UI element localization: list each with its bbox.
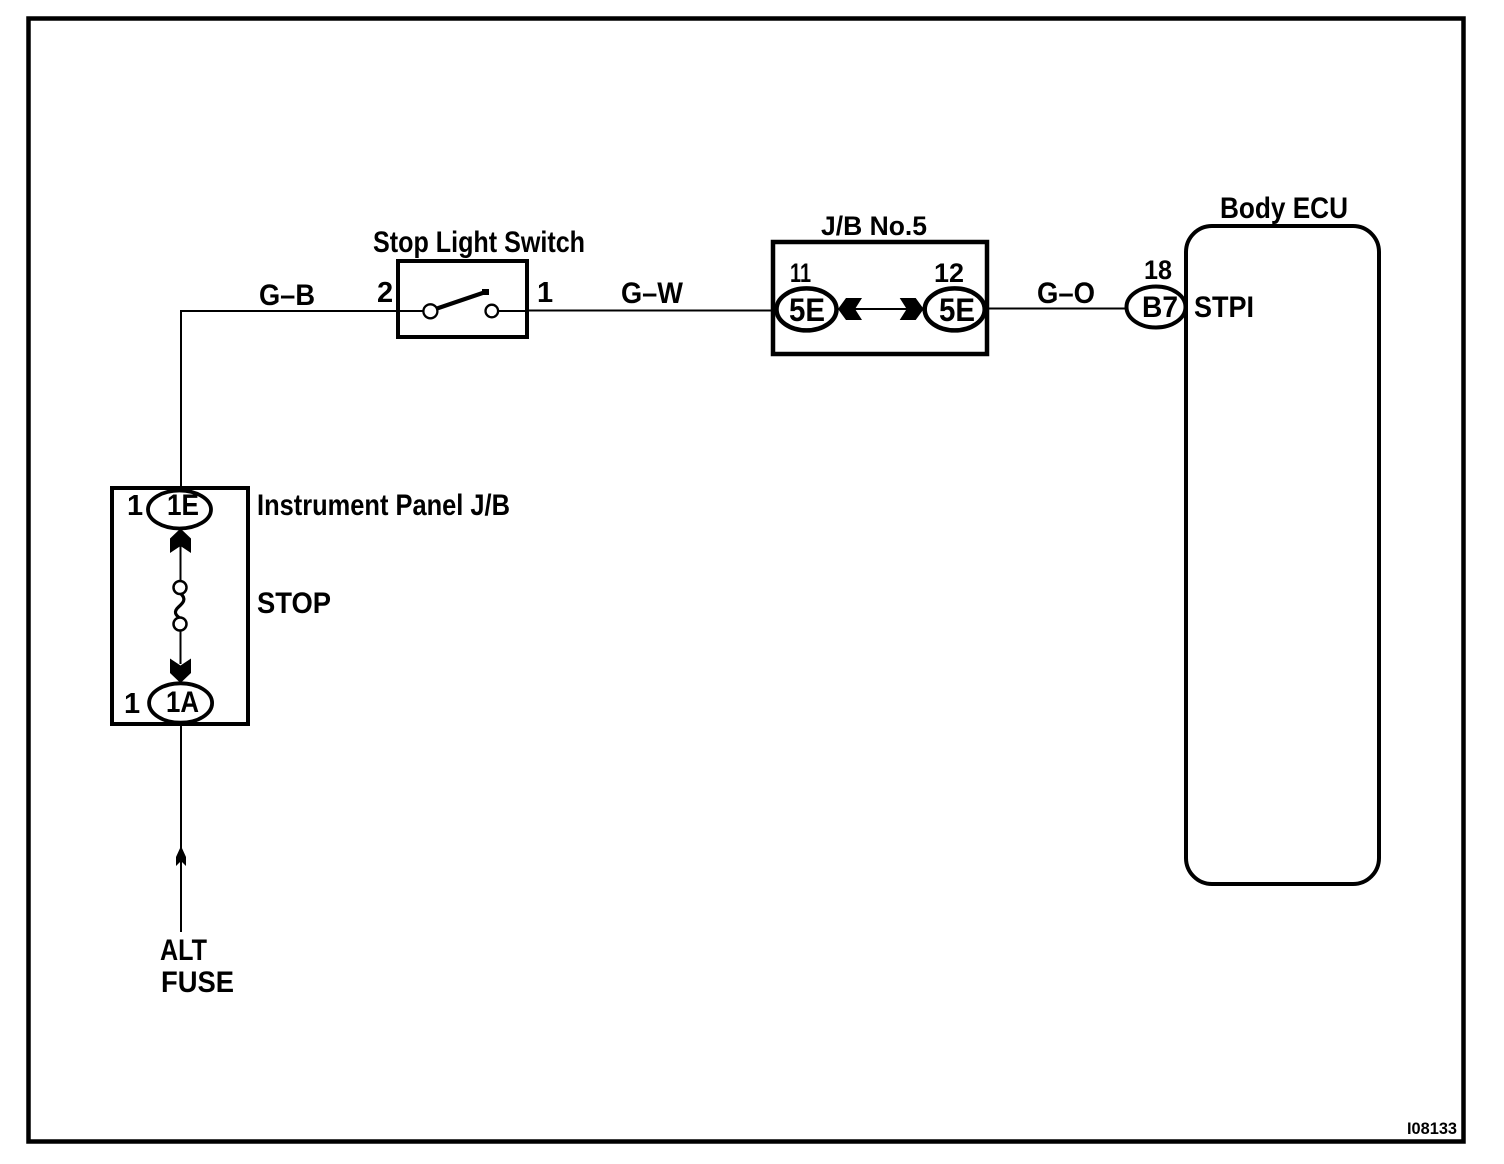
svg-text:1: 1 xyxy=(124,688,140,720)
svg-text:2: 2 xyxy=(377,277,393,309)
svg-text:G–O: G–O xyxy=(1037,277,1095,310)
arrowhead right xyxy=(900,298,924,320)
svg-text:Stop Light Switch: Stop Light Switch xyxy=(373,226,585,259)
svg-text:G–B: G–B xyxy=(259,279,315,312)
svg-text:18: 18 xyxy=(1144,255,1172,285)
svg-text:B7: B7 xyxy=(1142,291,1178,324)
svg-text:12: 12 xyxy=(934,258,964,288)
arrowhead left xyxy=(838,298,862,320)
svg-text:1A: 1A xyxy=(166,686,199,719)
wire between connectors xyxy=(835,308,926,310)
junction block J/B No.5 body xyxy=(773,242,987,354)
wire G-B vertical xyxy=(180,311,182,492)
internal wire xyxy=(180,546,182,581)
wire to ALT fuse xyxy=(180,726,182,932)
switch S1 terminal left xyxy=(423,304,437,318)
svg-text:I08133: I08133 xyxy=(1407,1119,1457,1138)
svg-text:1: 1 xyxy=(537,277,553,309)
switch S1 body xyxy=(398,261,527,337)
svg-text:Instrument Panel J/B: Instrument Panel J/B xyxy=(257,489,510,522)
switch S1 lever xyxy=(437,292,487,309)
svg-text:11: 11 xyxy=(790,258,811,288)
splice circle top xyxy=(174,581,187,594)
connector 1A xyxy=(149,683,212,722)
wire xyxy=(398,310,424,312)
svg-text:STPI: STPI xyxy=(1194,291,1254,324)
wire G-W xyxy=(527,310,775,312)
svg-text:Body ECU: Body ECU xyxy=(1220,192,1348,225)
svg-text:1E: 1E xyxy=(167,489,199,522)
switch S1 lever tip xyxy=(482,289,489,295)
svg-text:1: 1 xyxy=(127,490,143,522)
switch S1 terminal right xyxy=(486,305,499,318)
svg-text:FUSE: FUSE xyxy=(161,966,234,999)
fuse label ALT FUSE xyxy=(160,934,234,999)
arrowhead up xyxy=(170,529,191,554)
arrowhead up small xyxy=(176,846,186,866)
ECU U1 body xyxy=(1186,226,1379,884)
wire G-B horizontal xyxy=(180,310,399,312)
svg-text:5E: 5E xyxy=(939,292,975,328)
connector 5E pin 12 xyxy=(925,288,985,330)
splice circle bottom xyxy=(174,618,187,631)
svg-text:J/B No.5: J/B No.5 xyxy=(821,211,927,241)
wire xyxy=(498,310,527,312)
connector B7 xyxy=(1127,287,1186,328)
junction block Instrument Panel J/B body xyxy=(112,488,248,724)
internal wire xyxy=(180,630,182,664)
arrowhead down xyxy=(170,659,191,684)
svg-text:STOP: STOP xyxy=(257,587,331,620)
connector 1E xyxy=(148,489,211,529)
wire G-O xyxy=(984,308,1128,310)
svg-text:G–W: G–W xyxy=(621,277,684,310)
svg-text:ALT: ALT xyxy=(160,934,207,967)
svg-text:5E: 5E xyxy=(789,292,825,328)
squiggle wire xyxy=(175,594,183,619)
connector 5E pin 11 xyxy=(777,288,837,330)
